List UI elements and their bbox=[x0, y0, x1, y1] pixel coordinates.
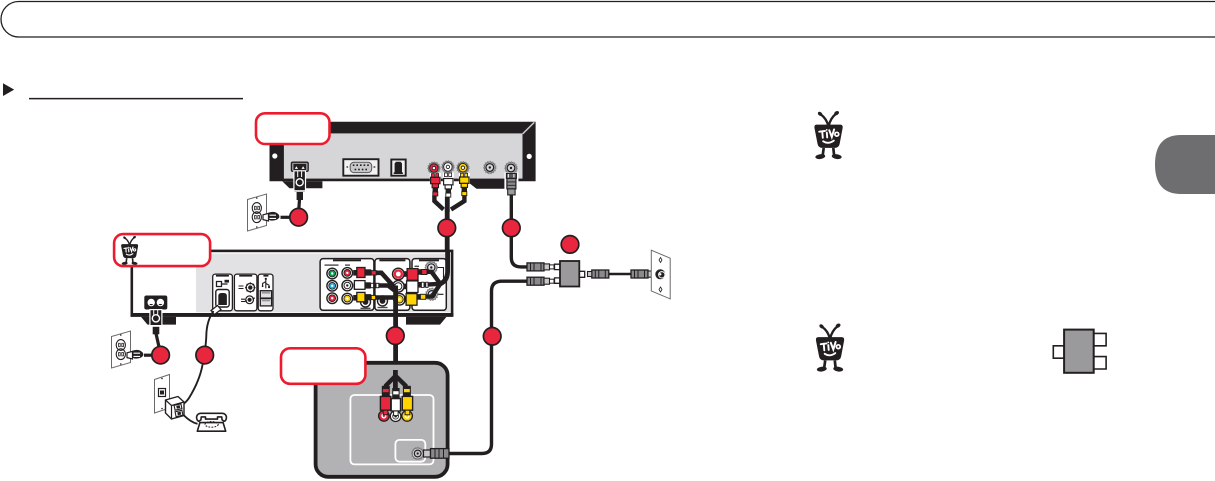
wire: vcr trio into tivo inputs bbox=[426, 250, 448, 297]
tivo wall plug bbox=[127, 351, 133, 359]
tivo logo top bbox=[814, 110, 842, 160]
vcr composite white plug hanging bbox=[443, 173, 454, 198]
vcr wall plug bbox=[263, 213, 269, 221]
red callout box on tivo with mascot bbox=[114, 234, 210, 266]
vcr body black shell bbox=[270, 122, 536, 182]
tv inner outline bbox=[350, 395, 433, 464]
tivo phone line panel bbox=[211, 274, 232, 314]
tivo bottom band bbox=[131, 313, 454, 317]
wire: phone cord splitter to phone bbox=[184, 415, 198, 424]
tivo A/V input panel bbox=[375, 259, 410, 311]
vcr left foot bbox=[282, 181, 322, 188]
telephone bbox=[197, 413, 227, 431]
av in yellow jack bbox=[394, 294, 406, 306]
tivo serial/ir panel bbox=[234, 274, 257, 311]
grey tab right edge bbox=[1155, 135, 1215, 194]
wire: tivo out trio merge down to tv bbox=[375, 273, 395, 371]
wire: coax to wall bbox=[609, 273, 631, 276]
splitter input connector 2 (from tv rf) bbox=[527, 277, 544, 285]
red callout box on tv bbox=[281, 348, 365, 384]
vcr composite red plug hanging bbox=[430, 173, 441, 197]
section triangle marker bbox=[3, 83, 14, 96]
vcr composite yellow plug hanging bbox=[459, 173, 470, 197]
phone line splitter box bbox=[166, 397, 185, 420]
vcr right foot bbox=[465, 180, 507, 189]
callout circle 6 (phone line) bbox=[196, 346, 214, 364]
tv composite plugs from above bbox=[380, 370, 412, 416]
splitter output cable to wall plate bbox=[588, 270, 655, 278]
section title underline bbox=[29, 98, 243, 100]
vcr RF coax connectors bbox=[484, 162, 517, 175]
tivo usb panel bbox=[258, 274, 273, 311]
tivo logo bottom bbox=[816, 323, 844, 373]
vcr 3d crease line bbox=[523, 122, 535, 134]
wall outlet B (for tivo) bbox=[112, 331, 144, 368]
tivo A/V output panel bbox=[320, 259, 374, 311]
rf out connector bbox=[426, 288, 438, 300]
red callout box on vcr bbox=[256, 113, 330, 144]
phone cord connector into jack bbox=[211, 306, 221, 315]
red jack bbox=[428, 162, 440, 174]
tivo output yellow plug bbox=[353, 292, 375, 301]
vcr RF plug + wire down to splitter bbox=[504, 173, 527, 267]
tv white jack bbox=[390, 411, 401, 422]
splitter input connector 1 (from vcr) bbox=[527, 263, 544, 271]
callout circle 4 (splitter) bbox=[561, 236, 579, 254]
red plug down bbox=[382, 386, 390, 397]
wire: vcr rf down bbox=[511, 195, 527, 267]
component Y jack bbox=[327, 268, 338, 279]
yellow jack bbox=[457, 162, 469, 174]
tivo input red plug bbox=[404, 269, 427, 281]
yellow plug down bbox=[403, 386, 411, 397]
av in red jack bbox=[393, 268, 405, 280]
av out yellow jack bbox=[342, 293, 353, 304]
av out red jack bbox=[342, 268, 353, 279]
vcr optical connector bbox=[391, 160, 405, 176]
vcr grey front panel bbox=[284, 133, 523, 178]
rf in connector bbox=[425, 262, 437, 274]
component Pb jack bbox=[327, 281, 338, 292]
tivo power plug bbox=[150, 310, 162, 326]
cable wall plate bbox=[651, 250, 670, 299]
callout circle 3 (vcr rf) bbox=[503, 219, 521, 237]
tivo cable/antenna panel bbox=[412, 259, 446, 311]
wire: phone cord from tivo down to splitter bbox=[183, 311, 214, 405]
tivo grey panel bbox=[196, 254, 451, 313]
vcr power plug bbox=[294, 171, 306, 192]
tivo left foot bbox=[141, 317, 176, 325]
wire: trio split bbox=[386, 370, 406, 397]
tv red jack bbox=[379, 411, 390, 422]
tivo right foot bbox=[406, 317, 447, 325]
tivo input white plug bbox=[404, 281, 428, 293]
tv yellow jack bbox=[402, 411, 413, 422]
s-video in bbox=[378, 296, 388, 306]
wall outlet A (for vcr) bbox=[248, 194, 280, 231]
tivo input yellow plug bbox=[404, 294, 426, 306]
vcr power inlet bbox=[281, 162, 309, 217]
phone wall jack plate bbox=[155, 375, 170, 414]
wire: tivo power cord bbox=[156, 334, 159, 347]
component Pr jack bbox=[327, 293, 338, 304]
callout circle 2 (vcr av) bbox=[438, 219, 456, 237]
vcr A/V out jacks (red/white/yellow) bbox=[428, 161, 469, 174]
vcr right screw bbox=[527, 154, 532, 159]
tv body bbox=[316, 363, 448, 477]
wire: tv rf up to splitter bbox=[450, 281, 528, 453]
tv rf box bbox=[395, 440, 425, 462]
white jack bbox=[442, 161, 454, 173]
callout circle 8 (tv rf) bbox=[483, 328, 501, 346]
wire: vcr power cord bbox=[297, 200, 301, 210]
vcr left screw bbox=[272, 153, 277, 158]
tv rf plug bbox=[424, 450, 431, 457]
s-video out bbox=[361, 297, 371, 307]
callout circle 1 (vcr power) bbox=[290, 208, 308, 226]
tivo body bbox=[132, 251, 452, 315]
white plug down bbox=[392, 388, 399, 399]
av in white jack bbox=[393, 281, 405, 293]
vcr serial DB9 connector bbox=[343, 159, 378, 176]
callout circle 5 (tivo power) bbox=[152, 346, 170, 364]
wire: vcr A/V trio merge to single cable bbox=[434, 195, 464, 251]
splitter body bbox=[555, 264, 585, 283]
tivo output red plug bbox=[353, 268, 376, 278]
callout circle 7 (tivo av out) bbox=[387, 327, 405, 345]
splitter legend icon bbox=[1053, 330, 1106, 373]
header pill bar bbox=[1, 2, 1215, 38]
tivo power inlet bbox=[144, 296, 167, 356]
av out white jack bbox=[342, 280, 353, 291]
tivo output white plug bbox=[354, 281, 379, 290]
